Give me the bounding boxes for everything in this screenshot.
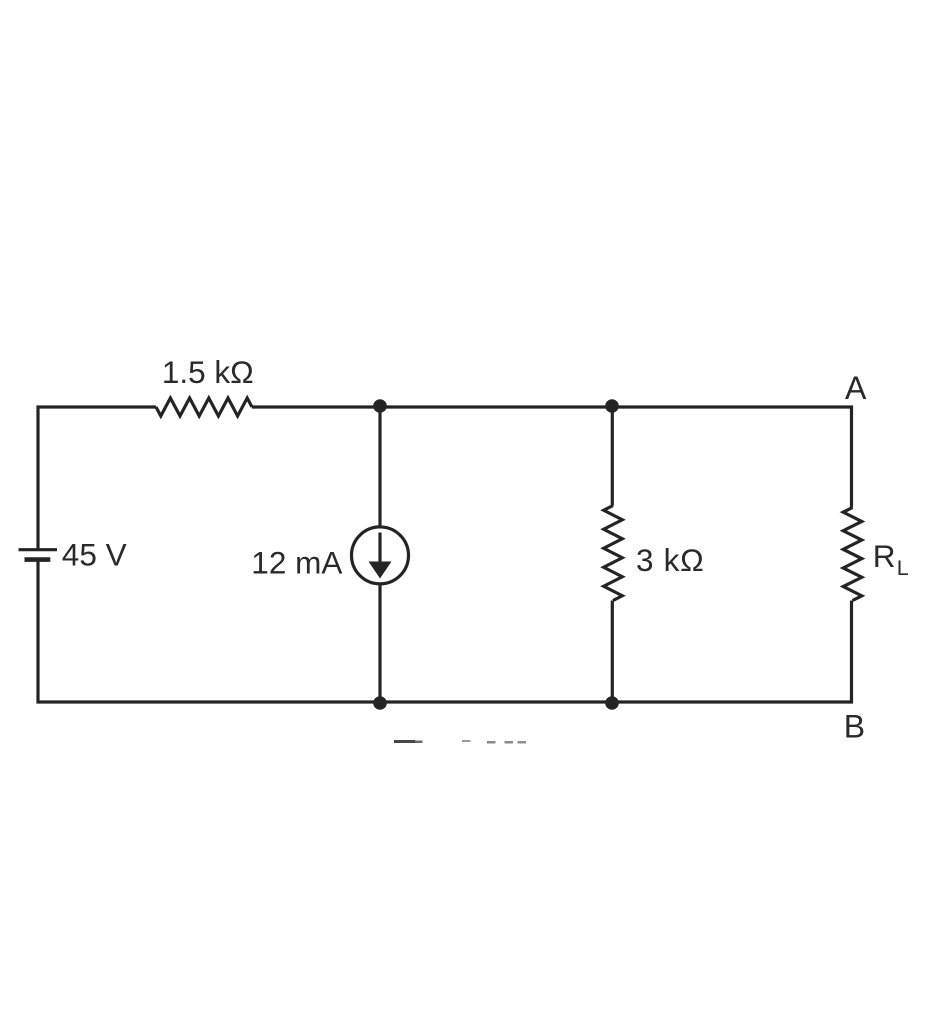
svg-text:12 mA: 12 mA [251, 545, 342, 581]
svg-text:3 kΩ: 3 kΩ [636, 542, 704, 578]
svg-text:R: R [873, 538, 896, 574]
svg-text:45 V: 45 V [62, 537, 127, 573]
svg-text:A: A [845, 370, 867, 406]
svg-text:1.5 kΩ: 1.5 kΩ [162, 354, 254, 390]
svg-text:L: L [897, 556, 909, 580]
svg-text:B: B [844, 709, 865, 745]
